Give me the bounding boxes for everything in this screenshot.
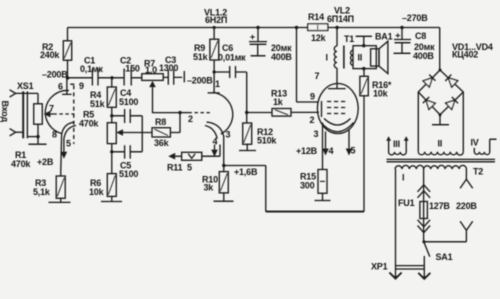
node T1 primary top on rail: [335, 26, 338, 29]
node A: VL1.1 anode node -200V: [66, 76, 69, 79]
svg-text:9: 9: [310, 92, 315, 102]
diode VD2 (top-right): [445, 75, 457, 88]
svg-text:470k: 470k: [11, 159, 31, 169]
diode VD3 (bottom-left): [423, 97, 435, 109]
svg-text:XS1: XS1: [17, 81, 34, 91]
127V lower chevrons to SA1: [418, 219, 431, 242]
wire SA1 to 220V branch: [424, 241, 466, 243]
tube VL1.2 cathode (pin 3): [207, 122, 231, 166]
tube VL1.2 heater arc and pin 4 arrow: [205, 126, 218, 157]
svg-text:3: 3: [314, 129, 319, 139]
transformer T1 secondary winding II: [351, 46, 377, 69]
resistor R15 (0.5W): [300, 170, 327, 194]
svg-text:9: 9: [79, 81, 84, 91]
svg-text:510k: 510k: [257, 136, 277, 146]
svg-text:127В: 127В: [429, 201, 450, 211]
resistor R14 (1W): [308, 12, 328, 43]
svg-text:XP1: XP1: [371, 262, 388, 272]
tube VL2 anode (pin 7): [315, 68, 346, 89]
svg-text:5: 5: [66, 139, 71, 149]
svg-text:I: I: [402, 173, 404, 183]
svg-text:470k: 470k: [79, 119, 99, 129]
svg-text:+1,6В: +1,6В: [234, 167, 258, 177]
tube VL2 grids (dashed rows): [310, 92, 348, 126]
svg-text:–270В: –270В: [402, 13, 428, 23]
capacitor C6: [214, 43, 247, 78]
switch SA1: [418, 240, 452, 279]
svg-text:5100: 5100: [119, 169, 138, 179]
capacitor C8 electrolytic 20uF 400V: [394, 26, 436, 61]
tube VL1.2 envelope arc: [213, 93, 233, 135]
svg-text:2: 2: [310, 115, 315, 125]
capacitor C5: [112, 145, 142, 179]
wire anode coupling row y=77.8: [68, 77, 142, 79]
svg-text:400В: 400В: [413, 51, 434, 61]
node 2 (VL1.2 grid node): [178, 111, 181, 114]
svg-text:4: 4: [329, 146, 334, 156]
svg-text:R14: R14: [308, 12, 324, 22]
wire VL1.1 cathode to R3: [60, 135, 63, 177]
loudspeaker BA1: [371, 32, 393, 74]
tube VL1.1 anode (pin 6): [58, 78, 72, 94]
ground under bridge: [432, 115, 449, 125]
127V tap with plug/socket chevrons: [418, 169, 451, 211]
svg-text:+2В: +2В: [37, 157, 54, 167]
node R9 top on rail: [213, 26, 216, 29]
diode VD1 (top-left): [423, 75, 435, 88]
svg-text:0,01мк: 0,01мк: [218, 53, 246, 63]
diode bridge VD1-VD4 diamond: [418, 69, 463, 117]
node R5/R6/C5 junction: [111, 144, 113, 174]
resistor R8: [152, 117, 170, 148]
ground at T1 secondary top: [356, 36, 372, 47]
svg-text:300: 300: [300, 181, 315, 191]
svg-text:1300: 1300: [159, 63, 178, 73]
resistor R6: [89, 174, 116, 197]
capacitor C4: [112, 88, 142, 123]
fuse FU1: [398, 198, 427, 219]
svg-text:5100: 5100: [119, 97, 138, 107]
svg-text:SA1: SA1: [436, 252, 453, 262]
svg-text:1: 1: [215, 79, 220, 89]
220V tap with open connector forks: [456, 169, 477, 242]
ground under R10: [214, 193, 234, 201]
resistor R2: [40, 28, 72, 79]
node C6 tap: [213, 70, 216, 73]
svg-text:–200В: –200В: [187, 76, 213, 86]
capacitor C7 electrolytic 20uF 400V: [249, 26, 292, 62]
wire bridge top feed: [439, 28, 441, 71]
svg-text:240k: 240k: [40, 50, 60, 60]
tube VL1.2 anode (pin 1): [208, 79, 220, 93]
capacitor C1: [80, 56, 103, 86]
svg-text:I: I: [326, 53, 328, 63]
resistor R10: [202, 166, 228, 193]
resistor R3: [33, 176, 65, 198]
svg-text:5,1k: 5,1k: [33, 187, 51, 197]
connector XS1: [10, 81, 38, 138]
wire C4/C5 right connector: [141, 116, 143, 152]
tube VL1.1 grid (pin 7): [49, 104, 75, 115]
svg-text:II: II: [438, 139, 443, 149]
svg-text:400В: 400В: [271, 52, 292, 62]
resistor R13: [247, 89, 319, 117]
node R12/R13 junction: [245, 111, 248, 114]
svg-text:C8: C8: [415, 31, 426, 41]
tube VL2 heater arc: [321, 123, 354, 132]
svg-text:220В: 220В: [456, 201, 477, 211]
svg-text:6П14П: 6П14П: [327, 14, 354, 24]
potentiometer R1 with wiper arrow to grid: [11, 93, 50, 169]
potentiometer R5 with wiper arrow: [79, 110, 123, 144]
resistor R12: [243, 123, 278, 146]
transformer T2 winding IV: [471, 138, 497, 155]
capacitor C3: [159, 55, 184, 85]
svg-text:C6: C6: [222, 43, 233, 53]
svg-text:51k: 51k: [90, 99, 106, 109]
svg-text:3: 3: [226, 130, 231, 140]
tube VL1.1 cathode (pin 8): [52, 122, 75, 140]
transformer T2 core: [387, 159, 496, 161]
node VL1.2 cathode / R10 junction: [222, 164, 225, 167]
transformer T2 primary winding I: [395, 165, 466, 182]
wire T2 primary left end to XP1: [395, 169, 397, 277]
tube VL1.1 envelope arc + dashed boundary, pin 9: [45, 81, 84, 144]
tube VL2 heater pins 4,5 arrows: [322, 130, 355, 157]
svg-text:7: 7: [315, 71, 320, 81]
svg-text:8: 8: [52, 130, 57, 140]
capacitor C2: [120, 56, 140, 86]
wire feedback loop R16 to VL1.2 cathode: [363, 96, 365, 212]
svg-text:+12В: +12В: [296, 146, 318, 156]
wire VL2 cathode to R15: [322, 123, 324, 170]
ground under R12: [239, 144, 256, 150]
svg-text:–200В: –200В: [42, 70, 68, 80]
node screen-grid rail tap: [295, 26, 298, 29]
ground under R3: [49, 198, 71, 202]
svg-text:0,1мк: 0,1мк: [80, 64, 103, 74]
wire R8 to node 2: [170, 113, 180, 133]
wire C6 to R12/R13: [246, 72, 248, 123]
svg-text:2: 2: [188, 114, 193, 124]
transformer T1 primary winding I: [326, 28, 355, 69]
transformer T2 winding III (heater) with arrows: [386, 136, 408, 155]
svg-text:51k: 51k: [193, 52, 209, 62]
diode VD4 (bottom-right): [446, 97, 458, 109]
ground under R1/XS1: [28, 137, 46, 145]
svg-text:1k: 1k: [273, 97, 284, 107]
wire R5 wiper to R8: [123, 132, 152, 134]
resistor R4: [90, 78, 116, 109]
resistor R9: [193, 28, 219, 63]
svg-text:II: II: [358, 53, 363, 63]
node C1/C2/R4 junction: [110, 76, 113, 79]
svg-text:R11 5: R11 5: [167, 163, 192, 173]
svg-text:R8: R8: [155, 117, 166, 127]
svg-text:10k: 10k: [373, 89, 389, 99]
svg-text:BA1: BA1: [375, 32, 393, 42]
svg-text:4: 4: [213, 137, 218, 147]
svg-text:Вход: Вход: [0, 101, 10, 123]
svg-text:III: III: [393, 139, 400, 149]
mains plug XP1: [371, 262, 425, 280]
tube VL2 envelope: [317, 84, 358, 134]
svg-text:T2: T2: [473, 167, 483, 177]
wire B+ top rail: [68, 27, 440, 29]
svg-text:1,0: 1,0: [145, 65, 157, 75]
svg-text:FU1: FU1: [398, 198, 415, 208]
svg-text:5: 5: [351, 146, 356, 156]
svg-text:IV: IV: [471, 138, 479, 148]
svg-text:T1: T1: [344, 34, 354, 44]
transformer T2 winding II (HV secondary): [418, 92, 463, 155]
potentiometer R7 with up wiper arrow: [142, 59, 180, 113]
wire R9 to VL1.2 anode: [213, 60, 215, 93]
wire screen grid feed (pin 9): [297, 28, 319, 103]
node R1 bottom junction: [36, 135, 39, 138]
node R4/R5/C4 junction: [111, 107, 113, 122]
svg-text:12k: 12k: [311, 33, 327, 43]
svg-text:36k: 36k: [154, 138, 170, 148]
svg-text:КЦ402: КЦ402: [452, 50, 478, 60]
resistor R16* feedback: [360, 69, 392, 99]
tube VL1.2 grid (pin 2): [180, 112, 189, 114]
svg-text:6Н2П: 6Н2П: [205, 15, 227, 25]
ground under R15: [315, 193, 331, 200]
svg-text:10k: 10k: [89, 187, 105, 197]
svg-text:6: 6: [58, 82, 63, 92]
ground under R6: [101, 196, 122, 201]
transformer T1 core: [343, 46, 345, 69]
tube VL2 cathode (pin 3): [314, 119, 351, 140]
tube VL1.1 heater arc and pin 5 arrow: [61, 126, 76, 159]
svg-text:.150: .150: [123, 64, 140, 74]
resistor R11 with 5W mark and left arrow: [167, 145, 220, 173]
svg-text:3k: 3k: [204, 183, 215, 193]
node T1 secondary bottom / R16: [362, 67, 365, 70]
